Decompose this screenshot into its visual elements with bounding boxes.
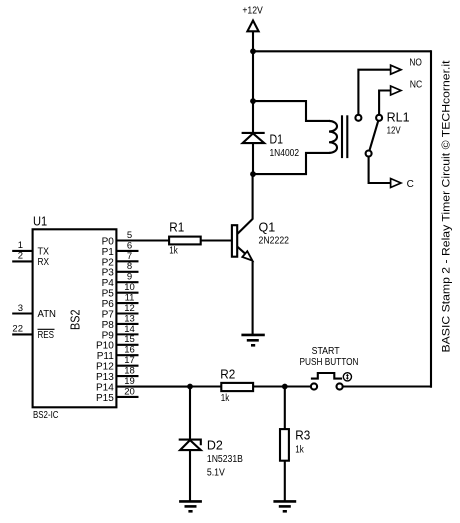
- svg-text:9: 9: [127, 272, 132, 283]
- wire P14 net horizontal: [189, 385, 221, 387]
- pin 18 P13: [96, 365, 138, 383]
- pin 2 RX: [12, 251, 49, 268]
- IC U1 box: [33, 229, 117, 407]
- svg-text:8: 8: [127, 261, 132, 272]
- pin 8 P3: [102, 261, 139, 279]
- svg-text:19: 19: [124, 376, 135, 387]
- resistor R3: [280, 429, 289, 461]
- svg-text:20: 20: [124, 386, 135, 397]
- svg-text:Q1: Q1: [259, 220, 276, 234]
- relay contact C arrow: [391, 179, 401, 188]
- pin 3 ATN: [12, 303, 56, 320]
- svg-text:7: 7: [127, 251, 132, 262]
- pin 19 P14: [96, 376, 190, 394]
- svg-text:D2: D2: [207, 439, 223, 453]
- svg-text:BS2: BS2: [68, 309, 83, 330]
- svg-text:22: 22: [12, 324, 23, 335]
- svg-text:P8: P8: [102, 320, 115, 331]
- ground R3: [273, 501, 296, 511]
- ground D2: [179, 501, 202, 511]
- svg-text:R2: R2: [220, 368, 235, 382]
- wire top rail horizontal: [253, 50, 431, 52]
- svg-text:P1: P1: [102, 247, 115, 258]
- svg-text:5: 5: [127, 230, 132, 241]
- svg-text:P13: P13: [96, 372, 114, 383]
- resistor R2: [221, 383, 253, 391]
- svg-text:BS2-IC: BS2-IC: [33, 410, 59, 421]
- wire D1 cathode: [252, 100, 254, 133]
- svg-text:12: 12: [124, 303, 135, 314]
- relay armature: [369, 121, 378, 151]
- pin 10 P5: [102, 282, 139, 300]
- svg-text:2N2222: 2N2222: [259, 236, 290, 247]
- wire R3 top: [284, 387, 286, 430]
- relay core line 1: [341, 115, 343, 158]
- transistor Q1: [232, 219, 253, 261]
- wire D2 anode to ground: [189, 450, 191, 501]
- svg-text:1N4002: 1N4002: [270, 148, 300, 159]
- wire D1 anode: [252, 143, 254, 175]
- diode D2 zener: [179, 440, 201, 451]
- relay contact NO wire and arrow: [358, 65, 401, 115]
- wire collector vertical: [252, 174, 254, 219]
- wire R2 to push button: [253, 385, 311, 387]
- pin 6 P1: [102, 240, 139, 258]
- svg-text:1k: 1k: [221, 393, 230, 404]
- pin 16 P11: [97, 345, 139, 363]
- wire push button to right rail: [343, 385, 432, 387]
- svg-text:P15: P15: [96, 393, 114, 404]
- svg-text:RX: RX: [38, 257, 50, 268]
- svg-text:RL1: RL1: [387, 110, 410, 124]
- wire base from R1 to Q1: [201, 239, 232, 241]
- junction dot R3 branch: [282, 384, 288, 390]
- wire P0 to R1: [116, 239, 169, 241]
- power +12V arrow symbol: [247, 21, 258, 32]
- svg-text:P14: P14: [96, 382, 114, 393]
- svg-text:R1: R1: [169, 221, 184, 235]
- svg-text:TX: TX: [38, 247, 50, 258]
- svg-text:P10: P10: [96, 341, 114, 352]
- svg-text:P7: P7: [102, 309, 115, 320]
- svg-text:P11: P11: [97, 351, 114, 362]
- wire coil branch top: [253, 101, 330, 121]
- pin 7 P2: [102, 251, 139, 269]
- svg-text:PUSH BUTTON: PUSH BUTTON: [300, 357, 359, 368]
- svg-text:12V: 12V: [387, 125, 401, 136]
- svg-text:C: C: [407, 179, 414, 190]
- svg-text:1: 1: [18, 240, 23, 251]
- junction dot D1 bottom: [250, 171, 256, 177]
- junction dot D2 branch: [187, 384, 193, 390]
- wire D2 cathode: [189, 387, 191, 440]
- pin 20 P15: [96, 386, 138, 404]
- svg-text:NC: NC: [410, 80, 423, 91]
- pin 13 P8: [102, 313, 139, 331]
- wire +12V down to D1 junction: [252, 51, 254, 101]
- wire emitter vertical: [252, 261, 254, 335]
- pin 15 P10: [96, 334, 138, 352]
- svg-text:+12V: +12V: [242, 6, 263, 17]
- wire common to C arrow: [369, 157, 391, 184]
- relay coil RL1 winding: [329, 121, 337, 153]
- relay contact NC terminal circle: [376, 115, 382, 121]
- pin 1 TX: [12, 240, 49, 257]
- relay core line 2: [346, 115, 348, 158]
- pin 9 P4: [102, 272, 139, 290]
- svg-text:14: 14: [124, 324, 135, 335]
- svg-text:P4: P4: [102, 278, 115, 289]
- svg-text:1N5231B: 1N5231B: [207, 454, 243, 465]
- svg-text:15: 15: [124, 334, 135, 345]
- svg-text:P3: P3: [102, 268, 115, 279]
- svg-text:U1: U1: [33, 214, 47, 229]
- pin 22 RES: [12, 324, 54, 341]
- svg-text:ATN: ATN: [38, 309, 57, 320]
- svg-text:11: 11: [125, 292, 135, 303]
- svg-text:P2: P2: [102, 257, 115, 268]
- svg-text:P9: P9: [102, 330, 115, 341]
- svg-text:BASIC Stamp 2 - Relay Timer Ci: BASIC Stamp 2 - Relay Timer Circuit © TE…: [441, 61, 453, 353]
- svg-text:1k: 1k: [169, 245, 178, 256]
- svg-text:P5: P5: [102, 289, 115, 300]
- svg-text:D1: D1: [270, 132, 284, 146]
- svg-text:2: 2: [18, 251, 23, 262]
- junction dot D1 top: [250, 98, 256, 104]
- svg-text:10: 10: [124, 282, 135, 293]
- wire R3 bottom to ground: [284, 461, 286, 502]
- relay common terminal circle: [366, 151, 372, 157]
- wire right rail vertical: [430, 50, 432, 387]
- pin 17 P12: [96, 355, 138, 373]
- svg-text:16: 16: [124, 345, 135, 356]
- svg-text:NO: NO: [409, 58, 422, 69]
- svg-text:13: 13: [124, 313, 135, 324]
- svg-text:RES: RES: [38, 330, 55, 341]
- svg-text:P12: P12: [96, 362, 114, 373]
- relay contact NC wire and arrow: [379, 86, 401, 115]
- pin 14 P9: [102, 324, 139, 342]
- svg-text:17: 17: [124, 355, 135, 366]
- svg-text:P6: P6: [102, 299, 115, 310]
- ground Q1 emitter: [241, 335, 264, 345]
- wire coil branch bottom: [253, 153, 330, 174]
- pin 11 P6: [102, 292, 139, 310]
- resistor R1: [169, 237, 201, 245]
- svg-text:START: START: [312, 346, 340, 357]
- svg-text:3: 3: [18, 303, 23, 314]
- svg-text:6: 6: [127, 240, 132, 251]
- relay contact NO terminal circle: [355, 115, 361, 121]
- pin 12 P7: [102, 303, 139, 321]
- junction dot top rail: [250, 48, 256, 54]
- pin 5 P0: [102, 230, 133, 248]
- wire +12V arrow to junction: [252, 31, 254, 52]
- svg-text:5.1V: 5.1V: [207, 467, 225, 478]
- push button S1: [311, 373, 352, 390]
- svg-text:18: 18: [124, 365, 135, 376]
- svg-text:R3: R3: [295, 429, 310, 443]
- svg-text:1k: 1k: [295, 444, 304, 455]
- diode D1: [242, 133, 265, 143]
- svg-text:P0: P0: [102, 236, 115, 247]
